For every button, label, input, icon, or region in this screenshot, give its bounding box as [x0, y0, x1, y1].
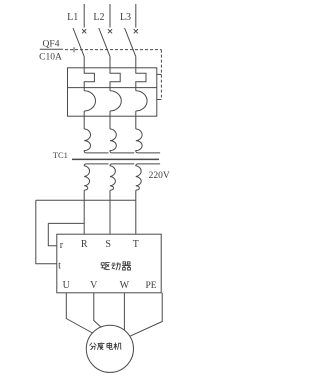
thermal element pole 2: [110, 68, 120, 91]
svg-text:L3: L3: [120, 12, 131, 23]
breaker QF4 contact x pole 1: [82, 29, 86, 33]
breaker QF4 blade pole 2: [99, 28, 110, 57]
wire pole 3 to breaker box: [135, 57, 137, 68]
svg-text:R: R: [81, 239, 88, 250]
magnetic element pole 3: [136, 91, 147, 111]
wire phase R to driver: [83, 190, 85, 234]
transformer TC1 secondary winding 2: [110, 164, 134, 190]
transformer TC1 primary winding 3: [136, 129, 160, 153]
transformer TC1 secondary winding 3: [136, 164, 160, 190]
wire W to motor: [123, 293, 125, 330]
wire L1 input: [83, 4, 85, 28]
breaker QF4 contact x pole 3: [134, 29, 138, 33]
wire U to motor: [66, 293, 92, 333]
svg-text:QF4: QF4: [43, 39, 60, 49]
svg-text:TC1: TC1: [53, 150, 68, 160]
transformer core: [72, 158, 159, 160]
transformer TC1 primary winding 1: [84, 129, 108, 153]
wire pole 2 to breaker box: [109, 57, 111, 68]
svg-text:T: T: [133, 239, 139, 250]
motor label hanzi fen: [89, 343, 96, 350]
wire r branch rail: [48, 223, 57, 245]
wire pole 1 breaker to transformer: [83, 111, 85, 129]
wire pole 2 breaker to transformer: [109, 111, 111, 129]
motor label hanzi du: [97, 342, 104, 349]
breaker box right connector top: [157, 73, 162, 75]
svg-text:t: t: [58, 261, 61, 272]
driver box: [57, 234, 161, 293]
wire phase T to driver: [135, 190, 137, 234]
breaker QF4 blade pole 1: [73, 28, 84, 57]
breaker QF4 contact x pole 2: [108, 29, 112, 33]
thermal element pole 3: [136, 68, 146, 91]
svg-text:220V: 220V: [149, 171, 170, 181]
wire pole 1 to breaker box: [83, 57, 85, 68]
breaker box divider: [68, 87, 157, 89]
QF4 linkage tick: [73, 47, 75, 52]
svg-text:PE: PE: [145, 281, 156, 291]
wire r branch horizontal: [48, 222, 84, 224]
svg-text:C10A: C10A: [39, 52, 62, 62]
svg-text:V: V: [90, 280, 98, 291]
svg-text:S: S: [105, 239, 111, 250]
breaker box right connector bottom: [157, 99, 162, 101]
label driver hanzi qu: [101, 262, 110, 269]
wire PE to motor: [130, 293, 162, 336]
label driver hanzi qi: [122, 262, 131, 270]
svg-text:L1: L1: [67, 12, 78, 23]
label driver hanzi dong: [111, 262, 120, 270]
magnetic element pole 1: [84, 91, 95, 111]
svg-text:W: W: [120, 280, 130, 291]
motor circle: [86, 325, 133, 372]
transformer TC1 secondary winding 1: [84, 164, 108, 190]
wire t branch left rail: [36, 200, 57, 263]
wire L2 input: [109, 4, 111, 28]
transformer TC1 primary winding 2: [110, 129, 134, 153]
wire L3 input: [135, 4, 137, 28]
wire V to motor: [94, 293, 101, 327]
svg-text:r: r: [60, 240, 64, 251]
motor label hanzi dian: [107, 342, 113, 349]
svg-text:L2: L2: [93, 12, 104, 23]
wire t branch horizontal: [36, 199, 136, 201]
thermal element pole 1: [84, 68, 94, 91]
QF4 trip linkage dashed vertical: [160, 50, 162, 98]
wire pole 3 breaker to transformer: [135, 111, 137, 129]
breaker unit box QF4: [68, 68, 157, 116]
svg-text:U: U: [63, 280, 71, 291]
magnetic element pole 2: [110, 91, 121, 111]
motor label hanzi ji: [114, 342, 122, 349]
QF4 trip linkage dashed horizontal: [65, 49, 161, 51]
wire phase S to driver: [109, 190, 111, 234]
label fraction bar: [40, 48, 63, 50]
breaker QF4 blade pole 3: [125, 28, 136, 57]
